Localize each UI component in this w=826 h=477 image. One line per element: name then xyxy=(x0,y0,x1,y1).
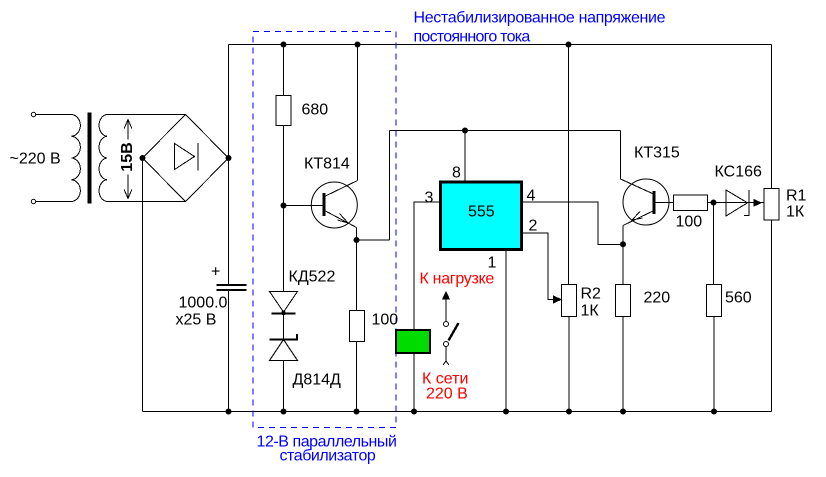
svg-text:8: 8 xyxy=(452,165,461,182)
svg-text:КТ814: КТ814 xyxy=(304,156,350,173)
svg-text:К нагрузке: К нагрузке xyxy=(420,271,495,288)
wire mid rail 130 xyxy=(390,130,621,132)
wire zener to ground xyxy=(283,361,285,412)
transformer T1 primary terminal top xyxy=(31,112,35,116)
svg-text:Д814Д: Д814Д xyxy=(293,372,342,389)
resistor 560 xyxy=(707,285,722,317)
wire bridge left vertex down to ground xyxy=(142,158,144,412)
resistor 220 xyxy=(616,285,631,317)
resistor 100 collector xyxy=(674,195,708,211)
svg-text:1К: 1К xyxy=(786,204,805,221)
svg-text:220 В: 220 В xyxy=(426,386,468,403)
node top rail 680 xyxy=(281,42,287,48)
wire 220 to ground xyxy=(622,317,624,412)
node KT814 base junction xyxy=(281,203,287,209)
wire junction down to 220 xyxy=(622,244,624,284)
switch S1 xyxy=(445,300,447,322)
transformer T1 primary terminal bottom xyxy=(31,199,35,203)
node 100 ground xyxy=(354,409,360,415)
potentiometer R2 xyxy=(562,285,577,317)
svg-text:КД522: КД522 xyxy=(289,269,336,286)
wire diode to R1 with arrow xyxy=(708,202,765,204)
wire secondary top lead xyxy=(107,114,186,116)
transistor Q1 KT814 xyxy=(311,182,357,228)
transformer T1 secondary winding xyxy=(99,115,107,202)
node R2 ground xyxy=(566,409,572,415)
wire capacitor to ground xyxy=(228,291,230,412)
zener VD3 KS166 xyxy=(726,190,748,216)
wire bottom ground rail xyxy=(143,411,772,413)
wire bridge right vertex down to capacitor xyxy=(228,158,230,284)
switch arrow up xyxy=(442,291,450,300)
svg-text:постоянного тока: постоянного тока xyxy=(414,29,531,46)
bridge inner diode xyxy=(175,143,199,171)
wire R1 to ground xyxy=(771,220,773,412)
wire base lead KT814 xyxy=(284,205,323,207)
wire bridge output up to rail xyxy=(228,45,230,159)
wire primary top lead xyxy=(36,114,72,116)
node emitter KT315 junction xyxy=(620,241,626,247)
wire 680 to base node xyxy=(283,126,285,206)
transformer T1 core xyxy=(88,113,92,204)
node bridge right vertex xyxy=(226,155,232,161)
diode VD1 KD522 xyxy=(283,206,285,292)
IC U1 555 xyxy=(441,182,522,250)
resistor 680 xyxy=(276,96,291,126)
node 560 ground xyxy=(711,409,717,415)
svg-text:3: 3 xyxy=(425,190,434,207)
wire R2 to ground xyxy=(568,317,570,412)
svg-text:220: 220 xyxy=(644,290,671,307)
wire rail to 680 xyxy=(283,45,285,96)
wire secondary bottom lead xyxy=(107,201,186,203)
node emitter junction xyxy=(354,237,360,243)
svg-text:x25 В: x25 В xyxy=(176,312,217,329)
wire emitter node down to resistor 100 xyxy=(356,240,358,311)
wire pin 8 xyxy=(464,131,466,183)
svg-text:~220 В: ~220 В xyxy=(10,151,61,168)
svg-text:15В: 15В xyxy=(119,142,136,171)
transformer T1 primary winding xyxy=(72,115,81,202)
resistor R1 xyxy=(764,189,779,221)
wire pin 4 xyxy=(522,202,624,244)
wire 560 to ground xyxy=(713,317,715,412)
relay green box xyxy=(396,330,430,353)
wire 100 to ground xyxy=(356,342,358,412)
svg-text:555: 555 xyxy=(468,204,495,221)
svg-text:100: 100 xyxy=(372,312,399,329)
node bridge left vertex xyxy=(140,155,146,161)
node 220 ground xyxy=(620,409,626,415)
svg-text:1К: 1К xyxy=(581,303,600,320)
node unregulated DC title xyxy=(414,10,666,46)
wire emitter node to mid rail xyxy=(357,131,390,241)
stabilizer dashed box xyxy=(253,32,396,428)
node diode junction xyxy=(711,200,717,206)
svg-text:2: 2 xyxy=(529,218,538,235)
bridge rectifier diamond xyxy=(143,115,229,202)
wire rail down to R2 xyxy=(568,45,570,285)
svg-text:R2: R2 xyxy=(581,286,602,303)
wire pin 2 to R2 wiper xyxy=(522,233,555,299)
node top rail KT814 collector xyxy=(355,42,361,48)
svg-text:КС166: КС166 xyxy=(715,164,762,181)
wire rail down to R1 xyxy=(771,45,773,189)
node pin1 ground xyxy=(503,409,509,415)
wire pin 1 to ground xyxy=(505,250,507,412)
capacitor C1 1000u plates xyxy=(217,285,247,290)
wire between diodes xyxy=(283,315,285,340)
wire pin 3 xyxy=(414,202,441,412)
node zener ground xyxy=(281,409,287,415)
arrow R2 wiper xyxy=(553,295,562,303)
node mid rail pin8 xyxy=(462,128,468,134)
svg-text:Нестабилизированное напряжение: Нестабилизированное напряжение xyxy=(414,10,666,27)
svg-text:1: 1 xyxy=(488,255,497,272)
svg-text:1000.0: 1000.0 xyxy=(179,295,228,312)
svg-text:100: 100 xyxy=(676,214,703,231)
svg-text:560: 560 xyxy=(725,290,752,307)
transistor Q2 KT315 xyxy=(621,131,654,195)
svg-text:КТ315: КТ315 xyxy=(634,145,680,162)
wire primary bottom lead xyxy=(36,201,72,203)
wire top positive rail xyxy=(229,44,772,46)
svg-text:680: 680 xyxy=(302,102,329,119)
wire 100 to diode xyxy=(708,202,727,204)
resistor 100 stabilizer xyxy=(350,311,365,342)
svg-text:стабилизатор: стабилизатор xyxy=(280,448,376,465)
svg-text:R1: R1 xyxy=(786,188,807,205)
svg-text:+: + xyxy=(211,264,220,281)
node capacitor ground xyxy=(226,409,232,415)
dimension arrow 15V xyxy=(124,120,132,199)
wire collector up to rail xyxy=(357,45,359,181)
node pin3 ground xyxy=(411,409,417,415)
wire junction down to 560 xyxy=(713,203,715,285)
node top rail right branch xyxy=(566,42,572,48)
zener VD2 D814D xyxy=(270,334,298,340)
